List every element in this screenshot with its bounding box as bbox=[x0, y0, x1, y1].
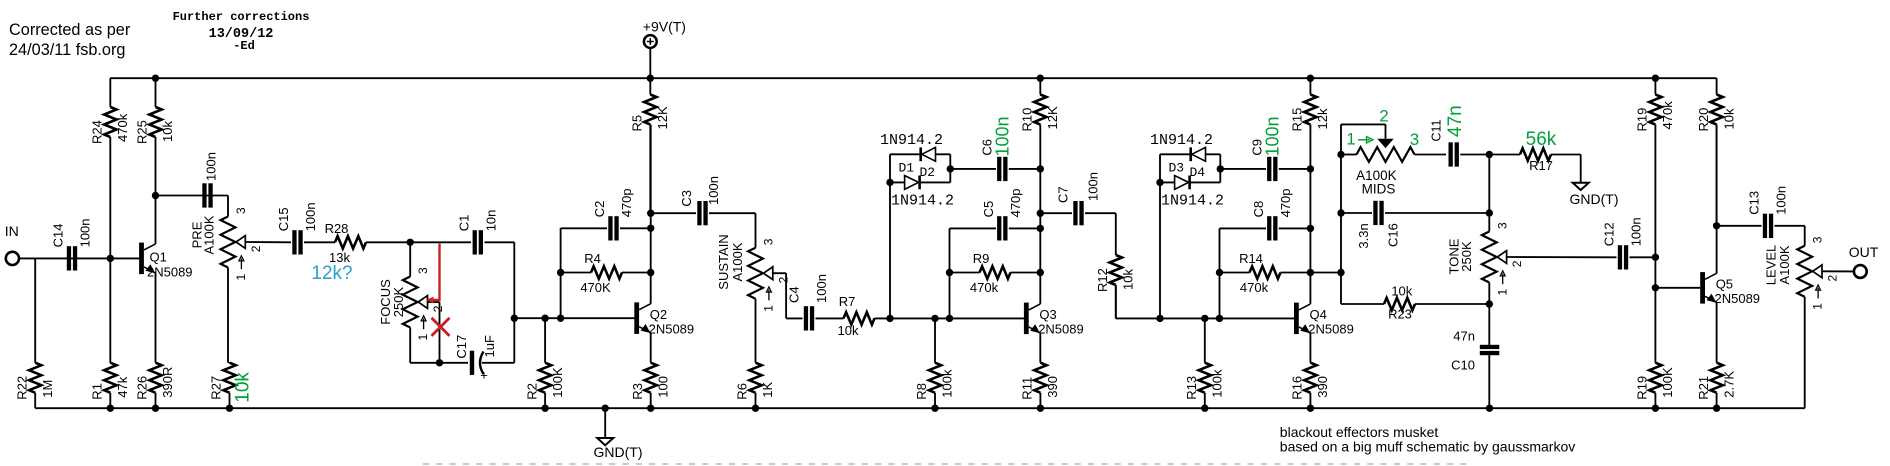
svg-text:2: 2 bbox=[249, 245, 263, 252]
svg-text:C5: C5 bbox=[981, 201, 996, 218]
svg-text:R23: R23 bbox=[1388, 307, 1412, 322]
svg-text:100k: 100k bbox=[1210, 369, 1225, 398]
svg-text:R14: R14 bbox=[1239, 251, 1263, 266]
resistor R19 470k bbox=[1635, 78, 1676, 257]
terminal IN bbox=[5, 223, 19, 265]
svg-text:1M: 1M bbox=[40, 380, 55, 398]
svg-text:2: 2 bbox=[1826, 275, 1840, 282]
junction feedback branch at Q4 base bbox=[1216, 315, 1223, 322]
svg-text:R17: R17 bbox=[1529, 158, 1553, 173]
wire top supply bus bbox=[110, 77, 1717, 79]
svg-text:390: 390 bbox=[1315, 376, 1330, 398]
svg-text:1N914.2: 1N914.2 bbox=[891, 193, 954, 210]
wire C1 to Q2 base node bbox=[485, 241, 515, 243]
svg-text:10k: 10k bbox=[232, 372, 253, 403]
svg-text:C14: C14 bbox=[51, 224, 66, 248]
svg-text:R9: R9 bbox=[973, 251, 990, 266]
resistor R25 10k bbox=[135, 78, 176, 195]
svg-text:R4: R4 bbox=[584, 251, 601, 266]
resistor R5 12K bbox=[630, 78, 671, 213]
junction diode branch at Q3 base bbox=[886, 315, 893, 322]
svg-text:2N5089: 2N5089 bbox=[649, 322, 695, 337]
junction ground bus at R13 bbox=[1201, 405, 1208, 412]
transistor Q2 2N5089 bbox=[634, 302, 694, 336]
svg-text:C3: C3 bbox=[679, 190, 694, 207]
junction top bus at R10 bbox=[1037, 75, 1044, 82]
resistor R15 12k bbox=[1290, 78, 1331, 169]
capacitor C12 100n bbox=[1602, 217, 1656, 269]
svg-text:Q2: Q2 bbox=[650, 307, 667, 322]
wire feedback vertical C8/R14 left bbox=[1219, 228, 1221, 318]
svg-text:1K: 1K bbox=[760, 381, 775, 397]
potentiometer MIDS A100K horizontal bbox=[1341, 107, 1446, 197]
svg-text:MIDS: MIDS bbox=[1362, 182, 1396, 197]
svg-text:2.7K: 2.7K bbox=[1721, 371, 1736, 398]
svg-text:3: 3 bbox=[234, 207, 248, 214]
capacitor C5 470p bbox=[950, 188, 1041, 240]
svg-text:470p: 470p bbox=[1008, 188, 1023, 217]
potentiometer SUSTAIN A100K bbox=[716, 234, 790, 311]
svg-text:10k: 10k bbox=[1391, 284, 1412, 299]
svg-text:10k: 10k bbox=[160, 121, 175, 142]
svg-text:based on a big muff schematic: based on a big muff schematic by gaussma… bbox=[1280, 439, 1575, 455]
svg-text:1: 1 bbox=[762, 305, 776, 312]
potentiometer FOCUS 250K bbox=[378, 267, 445, 341]
wire Q5 emitter to R21 bbox=[1716, 302, 1718, 362]
resistor R1 47k bbox=[90, 258, 131, 408]
svg-text:3: 3 bbox=[762, 238, 776, 245]
junction ground bus at R21 bbox=[1713, 405, 1720, 412]
junction C7 tap bbox=[1037, 210, 1044, 217]
capacitor C15 100n bbox=[276, 202, 318, 254]
junction C9 at Q4 collector column bbox=[1307, 165, 1314, 172]
svg-text:R1: R1 bbox=[90, 383, 105, 400]
wire Q2 emitter to R3 bbox=[650, 333, 652, 363]
svg-text:3: 3 bbox=[1811, 236, 1825, 243]
wire FOCUS wiper old connection (crossed out) bbox=[428, 301, 440, 303]
wire TONE pin1 down to R23 node bbox=[1488, 283, 1490, 305]
resistor R2 100K bbox=[524, 318, 565, 408]
svg-text:1N914.2: 1N914.2 bbox=[1161, 193, 1224, 210]
svg-text:12k?: 12k? bbox=[311, 263, 352, 284]
svg-text:2N5089: 2N5089 bbox=[1715, 291, 1761, 306]
svg-text:100n: 100n bbox=[1629, 217, 1644, 246]
junction R23/TONE/C10 node bbox=[1486, 300, 1493, 307]
svg-text:Q3: Q3 bbox=[1039, 307, 1056, 322]
svg-text:2N5089: 2N5089 bbox=[1038, 322, 1084, 337]
svg-text:100K: 100K bbox=[550, 367, 565, 398]
svg-text:10k: 10k bbox=[838, 323, 859, 338]
wire C3 to SUSTAIN pin3 bbox=[755, 213, 757, 248]
svg-text:100n: 100n bbox=[993, 116, 1013, 156]
capacitor C7 100n bbox=[1040, 172, 1116, 225]
capacitor C6 100n bbox=[950, 116, 1040, 181]
svg-text:SUSTAIN: SUSTAIN bbox=[716, 234, 731, 289]
svg-text:Q4: Q4 bbox=[1310, 307, 1327, 322]
svg-text:R27: R27 bbox=[209, 376, 224, 400]
svg-text:C13: C13 bbox=[1747, 191, 1762, 215]
junction diode pair right / C6 bbox=[947, 165, 954, 172]
wire R20 to Q5 collector bbox=[1716, 125, 1718, 274]
svg-text:GND(T): GND(T) bbox=[1570, 191, 1619, 207]
svg-text:2: 2 bbox=[431, 305, 445, 312]
capacitor C1 10n bbox=[457, 210, 499, 255]
svg-text:1: 1 bbox=[234, 274, 248, 281]
junction input node at R1/R24 bbox=[107, 255, 114, 262]
svg-text:12k: 12k bbox=[1315, 108, 1330, 129]
junction C2 right at collector column bbox=[647, 225, 654, 232]
junction MIDS pin1 node bbox=[1337, 151, 1344, 158]
resistor R26 390R bbox=[135, 363, 176, 409]
resistor R27 10k bbox=[209, 363, 254, 409]
resistor R3 100 bbox=[630, 363, 671, 409]
svg-text:1N914.2: 1N914.2 bbox=[880, 132, 943, 149]
capacitor C9 100n bbox=[1220, 116, 1310, 181]
svg-text:R19: R19 bbox=[1635, 108, 1650, 132]
wire feedback vertical C2/R4 bbox=[560, 228, 562, 318]
wire Q5 base column bbox=[1654, 257, 1656, 362]
junction R14 extension tap bbox=[1337, 269, 1344, 276]
junction ground bus at R27 bbox=[226, 405, 233, 412]
svg-text:1: 1 bbox=[1495, 289, 1509, 296]
junction C12 at Q5 base column bbox=[1652, 254, 1659, 261]
junction R8 at Q3 base bbox=[931, 315, 938, 322]
junction R9 right bbox=[1037, 269, 1044, 276]
svg-text:D4: D4 bbox=[1190, 165, 1206, 180]
svg-text:2: 2 bbox=[1510, 260, 1524, 267]
svg-text:3.3n: 3.3n bbox=[1356, 223, 1371, 248]
svg-text:470k: 470k bbox=[1660, 101, 1675, 130]
junction C13 at Q5 collector bbox=[1713, 222, 1720, 229]
svg-text:100n: 100n bbox=[814, 274, 829, 303]
resistor R28 13k bbox=[325, 221, 366, 265]
svg-text:3: 3 bbox=[1495, 222, 1509, 229]
wire node A to FOCUS pot bbox=[409, 242, 411, 276]
junction ground bus at R3 bbox=[647, 405, 654, 412]
svg-text:R10: R10 bbox=[1020, 108, 1035, 132]
page boundary dashed line bbox=[423, 463, 1468, 465]
svg-text:390R: 390R bbox=[160, 367, 175, 398]
resistor R10 12K bbox=[1020, 78, 1061, 169]
resistor R8 100k bbox=[914, 318, 955, 408]
wire R28 to node A bbox=[366, 241, 410, 243]
junction ground bus at R8 bbox=[931, 405, 938, 412]
junction ground bus at C10 bbox=[1486, 405, 1493, 412]
junction C5 tap bbox=[1037, 225, 1044, 232]
svg-text:C10: C10 bbox=[1451, 358, 1475, 373]
junction ground bus at R2 bbox=[541, 405, 548, 412]
junction top bus at R25 bbox=[152, 75, 159, 82]
svg-text:470p: 470p bbox=[619, 188, 634, 217]
svg-text:250K: 250K bbox=[391, 286, 406, 317]
svg-text:R8: R8 bbox=[914, 383, 929, 400]
svg-text:24/03/11 fsb.org: 24/03/11 fsb.org bbox=[9, 41, 125, 59]
junction Q1 collector / R25 / coupling cap bbox=[152, 192, 159, 199]
svg-text:IN: IN bbox=[5, 223, 19, 239]
junction C6 at Q3 collector column bbox=[1037, 165, 1044, 172]
svg-text:R20: R20 bbox=[1696, 108, 1711, 132]
svg-text:C2: C2 bbox=[592, 201, 607, 218]
svg-text:R5: R5 bbox=[630, 115, 645, 132]
junction R2 at base line bbox=[541, 315, 548, 322]
capacitor C8 470p bbox=[1220, 188, 1311, 240]
svg-text:250K: 250K bbox=[1459, 241, 1474, 272]
svg-text:A100K: A100K bbox=[202, 215, 217, 254]
svg-text:R28: R28 bbox=[325, 221, 349, 236]
capacitor C11 47n bbox=[1430, 105, 1490, 166]
capacitor C13 100n bbox=[1717, 186, 1805, 238]
svg-text:1uF: 1uF bbox=[482, 335, 497, 357]
wire LEVEL pin1 to ground bus bbox=[1804, 297, 1806, 408]
wire C15 to R28 bbox=[304, 241, 335, 243]
junction feedback branch at Q3 base bbox=[946, 315, 953, 322]
svg-text:C7: C7 bbox=[1056, 186, 1071, 203]
svg-text:GND(T): GND(T) bbox=[594, 444, 643, 460]
svg-text:47k: 47k bbox=[115, 376, 130, 397]
svg-text:R25: R25 bbox=[135, 120, 150, 144]
capacitor C3 100n bbox=[651, 176, 756, 225]
svg-text:470k: 470k bbox=[115, 113, 130, 142]
wire Q1 emitter to R26 bbox=[155, 273, 157, 363]
svg-text:100n: 100n bbox=[1774, 186, 1789, 215]
resistor R13 100k bbox=[1184, 318, 1225, 408]
svg-text:C8: C8 bbox=[1251, 201, 1266, 218]
svg-text:R6: R6 bbox=[735, 383, 750, 400]
wire TONE wiper to C12 bbox=[1507, 256, 1617, 258]
svg-text:R16: R16 bbox=[1290, 376, 1305, 400]
resistor R16 390 bbox=[1290, 363, 1331, 409]
svg-text:R7: R7 bbox=[839, 294, 856, 309]
svg-text:+9V(T): +9V(T) bbox=[643, 19, 686, 35]
wire MIDS left vertical bbox=[1340, 155, 1342, 305]
wire ground bus bbox=[35, 407, 1805, 409]
svg-text:C11: C11 bbox=[1430, 119, 1444, 141]
svg-text:47n: 47n bbox=[1453, 329, 1475, 344]
wire collector node to PRE pot bbox=[156, 195, 229, 197]
svg-text:100: 100 bbox=[655, 376, 670, 398]
svg-text:2N5089: 2N5089 bbox=[1308, 322, 1354, 337]
junction R9 left bbox=[946, 269, 953, 276]
resistor R17 56k bbox=[1489, 129, 1580, 173]
junction diode pair D3/D4 bottom-left bbox=[1156, 179, 1163, 186]
resistor R24 470k bbox=[90, 78, 131, 258]
svg-text:C17: C17 bbox=[454, 335, 469, 359]
svg-text:R24: R24 bbox=[90, 120, 105, 144]
svg-text:C15: C15 bbox=[276, 207, 291, 231]
svg-text:D3: D3 bbox=[1169, 161, 1185, 176]
capacitor C2 470p bbox=[561, 188, 651, 240]
svg-text:47n: 47n bbox=[1445, 105, 1466, 137]
capacitor C17 1uF polarized bbox=[454, 335, 514, 383]
wire Q1 collector bbox=[155, 196, 157, 244]
junction ground bus at R1 bbox=[107, 405, 114, 412]
capacitor C4 100n bbox=[787, 274, 830, 330]
ground GND(T) at R17 bbox=[1570, 155, 1619, 208]
resistor R22 1M bbox=[14, 258, 55, 408]
svg-text:470p: 470p bbox=[1278, 188, 1293, 217]
potentiometer PRE A100K bbox=[190, 207, 263, 281]
svg-text:1N914.2: 1N914.2 bbox=[1150, 132, 1213, 149]
resistor R12 10k bbox=[1095, 255, 1136, 318]
junction ground bus at R16 bbox=[1307, 405, 1314, 412]
potentiometer LEVEL A100K bbox=[1764, 236, 1840, 309]
resistor R6 1K bbox=[735, 363, 776, 409]
junction top bus at R5/+9V bbox=[647, 75, 654, 82]
junction diode pair right / C9 bbox=[1217, 165, 1224, 172]
wire C13 to LEVEL pin3 bbox=[1804, 226, 1806, 246]
junction R4 right at collector column bbox=[647, 269, 654, 276]
svg-text:100K: 100K bbox=[1660, 367, 1675, 398]
resistor R7 10k bbox=[838, 294, 875, 338]
svg-text:R13: R13 bbox=[1184, 376, 1199, 400]
wire Q3 collector column bbox=[1039, 169, 1041, 304]
svg-text:390: 390 bbox=[1045, 376, 1060, 398]
svg-text:Corrected as per: Corrected as per bbox=[9, 21, 131, 39]
junction R13 at Q4 base bbox=[1201, 315, 1208, 322]
wire Q2 base line bbox=[514, 317, 634, 319]
wire PRE wiper to C15 bbox=[245, 241, 291, 243]
svg-text:R12: R12 bbox=[1095, 268, 1110, 292]
svg-text:100n: 100n bbox=[706, 176, 721, 205]
junction R4 left bbox=[557, 269, 564, 276]
annotation red reroute of FOCUS wiper bbox=[427, 244, 440, 304]
diode pair D3/D4 1N914.2 bbox=[1150, 132, 1224, 210]
svg-text:1: 1 bbox=[416, 334, 430, 341]
svg-text:100k: 100k bbox=[940, 369, 955, 398]
wire FOCUS bottom to C17 bbox=[410, 362, 468, 364]
resistor R4 470K bbox=[561, 251, 651, 295]
svg-text:1: 1 bbox=[1811, 303, 1825, 310]
wire Q4 collector column bbox=[1309, 169, 1311, 304]
junction ground bus at R19 bottom bbox=[1652, 405, 1659, 412]
svg-text:100n: 100n bbox=[78, 218, 93, 247]
+9V(T) supply terminal bbox=[643, 19, 686, 48]
wire C4 to R7 bbox=[816, 317, 844, 319]
transistor Q1 2N5089 bbox=[139, 243, 192, 280]
wire feedback vertical C5/R9 left bbox=[949, 228, 951, 318]
wire +9V stem bbox=[649, 48, 651, 78]
junction top bus at R15 bbox=[1307, 75, 1314, 82]
svg-text:R19: R19 bbox=[1635, 376, 1650, 400]
svg-text:Further corrections: Further corrections bbox=[173, 10, 310, 24]
wire C7 to R12 bbox=[1115, 213, 1117, 255]
svg-text:-Ed: -Ed bbox=[233, 39, 255, 53]
resistor R9 470k bbox=[950, 251, 1041, 295]
svg-text:470k: 470k bbox=[1240, 280, 1269, 295]
svg-text:R15: R15 bbox=[1290, 108, 1305, 132]
junction Q2 base node bbox=[511, 315, 518, 322]
transistor Q5 2N5089 bbox=[1700, 272, 1760, 306]
svg-text:R26: R26 bbox=[135, 376, 150, 400]
junction ground bus at R6 bbox=[752, 405, 759, 412]
junction node A (R28/FOCUS/C1) bbox=[407, 239, 414, 246]
junction top bus at R19 bbox=[1652, 75, 1659, 82]
svg-text:3: 3 bbox=[1410, 130, 1419, 149]
junction ground bus at GND stem bbox=[602, 405, 609, 412]
svg-text:+: + bbox=[480, 368, 488, 383]
wire Q4 emitter to R16 bbox=[1309, 333, 1311, 363]
svg-text:C12: C12 bbox=[1602, 222, 1617, 246]
svg-text:R3: R3 bbox=[630, 383, 645, 400]
svg-text:C4: C4 bbox=[787, 286, 802, 303]
wire TONE top vertical bbox=[1488, 155, 1490, 232]
wire IN to Q1 base bbox=[19, 257, 139, 259]
wire R5/collector column bbox=[650, 125, 652, 304]
capacitor C14 100n bbox=[51, 218, 93, 270]
svg-text:3: 3 bbox=[416, 267, 430, 274]
svg-text:Q1: Q1 bbox=[150, 250, 167, 265]
svg-text:100n: 100n bbox=[1086, 172, 1101, 201]
wire R7 to Q3 base line bbox=[875, 317, 1025, 319]
resistor R20 10k bbox=[1696, 78, 1737, 226]
diode pair D1/D2 1N914.2 bbox=[880, 132, 954, 210]
svg-text:R21: R21 bbox=[1696, 376, 1711, 400]
junction diode branch at Q4 base bbox=[1156, 315, 1163, 322]
svg-text:2: 2 bbox=[1379, 107, 1388, 126]
wire R12 to Q4 base line bbox=[1115, 285, 1117, 318]
resistor R11 390 bbox=[1020, 363, 1061, 409]
svg-text:C16: C16 bbox=[1386, 223, 1401, 247]
potentiometer TONE 250K bbox=[1447, 222, 1524, 296]
svg-text:470k: 470k bbox=[970, 280, 999, 295]
junction C16 at TONE column bbox=[1486, 209, 1493, 216]
svg-text:10k: 10k bbox=[1721, 108, 1736, 129]
capacitor C16 3.3n bbox=[1341, 201, 1489, 249]
junction TONE top node bbox=[1486, 151, 1493, 158]
junction Q5 base tap bbox=[1652, 284, 1659, 291]
svg-text:56k: 56k bbox=[1526, 129, 1557, 150]
terminal OUT bbox=[1849, 244, 1879, 278]
wire SUSTAIN pin1 to R6 bbox=[755, 299, 757, 363]
resistor R21 2.7K bbox=[1696, 363, 1737, 409]
svg-text:12K: 12K bbox=[655, 106, 670, 129]
wire Q5 base wire bbox=[1655, 287, 1700, 289]
junction R14 left bbox=[1216, 269, 1223, 276]
svg-text:A100K: A100K bbox=[1777, 245, 1792, 284]
svg-text:100n: 100n bbox=[1263, 116, 1283, 156]
svg-text:D2: D2 bbox=[920, 165, 936, 180]
wire SUSTAIN wiper to C4 bbox=[773, 272, 786, 274]
resistor R14 470k bbox=[1220, 251, 1311, 295]
wire R14 node to MIDS network bbox=[1310, 272, 1341, 274]
junction C16 tap bbox=[1337, 209, 1344, 216]
svg-text:2N5089: 2N5089 bbox=[147, 265, 193, 280]
resistor R19 100K (bottom) bbox=[1635, 363, 1676, 409]
svg-text:100n: 100n bbox=[204, 152, 219, 181]
svg-text:2: 2 bbox=[776, 276, 790, 283]
svg-text:R2: R2 bbox=[524, 383, 539, 400]
svg-text:12K: 12K bbox=[1045, 106, 1060, 129]
wire Q3 emitter to R11 bbox=[1039, 333, 1041, 363]
junction wiper wire at bottom bbox=[436, 359, 443, 366]
wire FOCUS pin1 down bbox=[409, 328, 411, 363]
ground GND(T) main bbox=[594, 408, 643, 460]
svg-text:10k: 10k bbox=[1121, 269, 1136, 290]
svg-text:100n: 100n bbox=[303, 202, 318, 231]
annotation red X cross-out bbox=[432, 318, 450, 336]
wire PRE pin1 to R27 bbox=[227, 268, 229, 363]
svg-text:R11: R11 bbox=[1020, 377, 1035, 400]
svg-text:Q5: Q5 bbox=[1716, 277, 1733, 292]
junction diode pair bottom-left bbox=[886, 179, 893, 186]
junction C3 tap at collector column bbox=[647, 210, 654, 217]
svg-text:C1: C1 bbox=[457, 215, 472, 232]
svg-text:470K: 470K bbox=[580, 280, 611, 295]
junction R14 right bbox=[1307, 269, 1314, 276]
transistor Q3 2N5089 bbox=[1024, 303, 1084, 337]
capacitor C10 47n bbox=[1451, 304, 1499, 408]
svg-text:OUT: OUT bbox=[1849, 244, 1879, 260]
